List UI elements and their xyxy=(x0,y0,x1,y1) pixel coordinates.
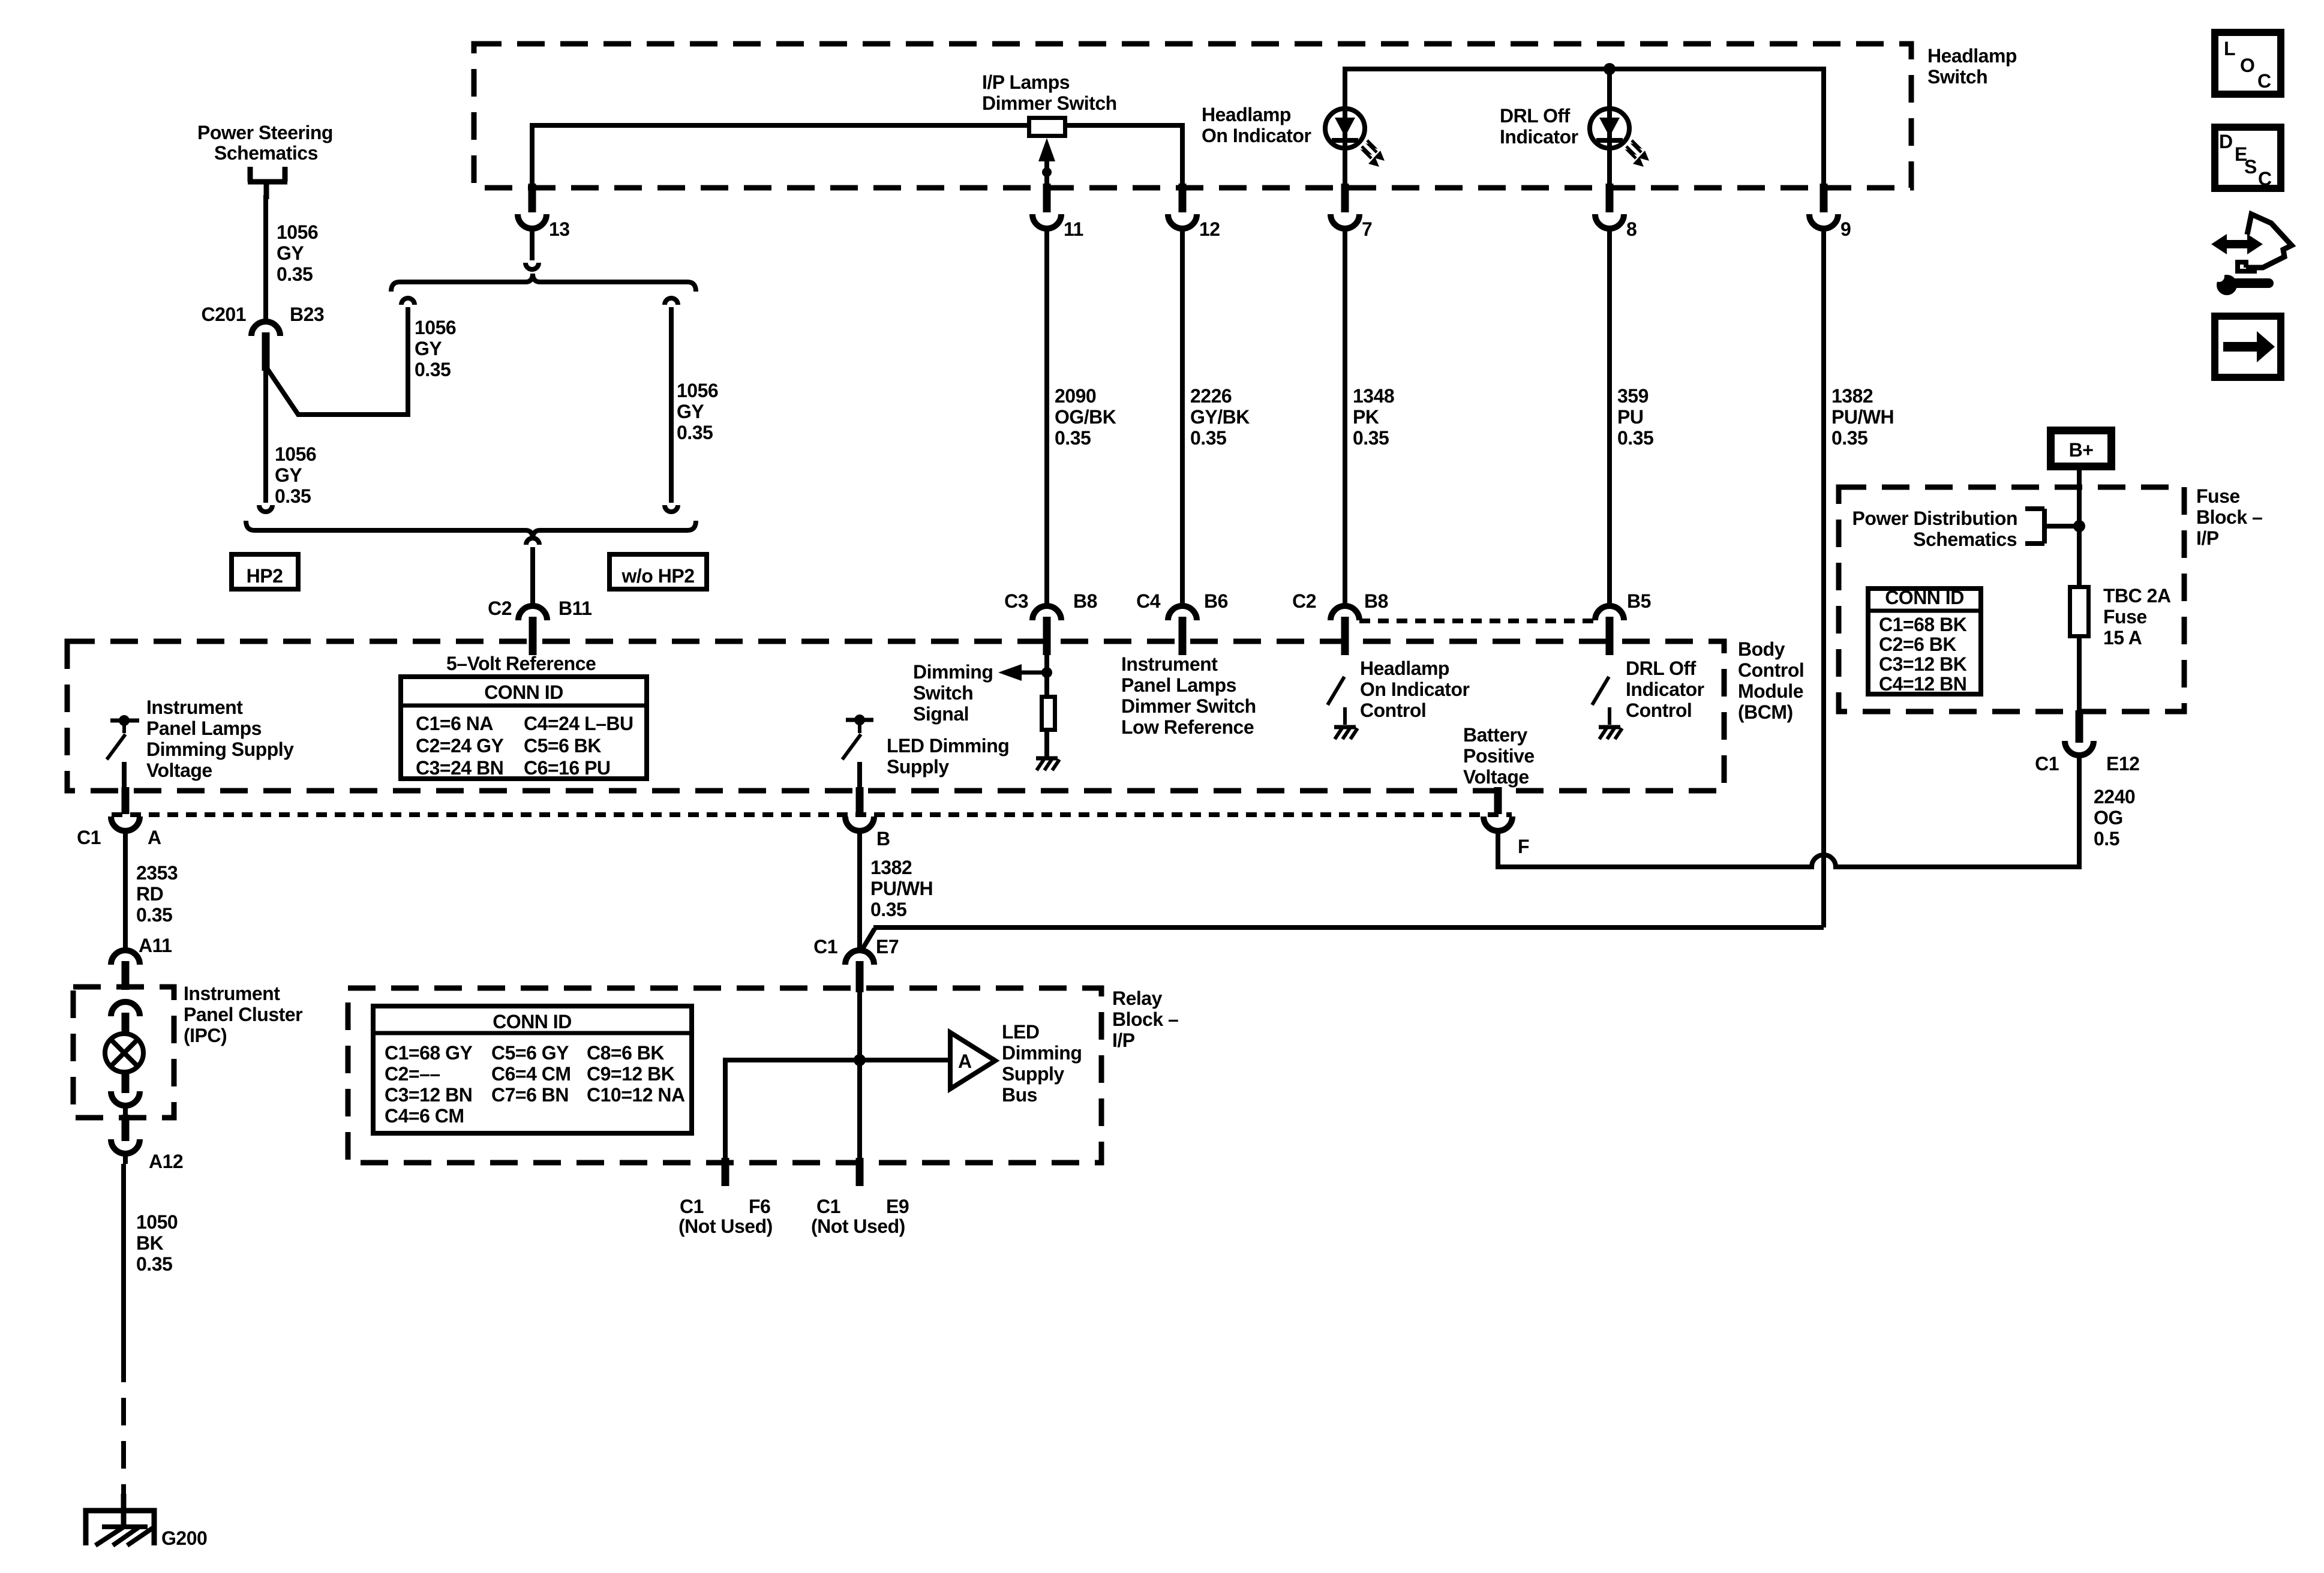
pin 11 of headlamp switch xyxy=(1043,184,1051,212)
body control module dashed enclosure xyxy=(67,641,1724,791)
fuse block dashed enclosure xyxy=(1839,487,2184,712)
svg-text:GY: GY xyxy=(275,464,302,486)
svg-text:Control: Control xyxy=(1738,659,1804,681)
svg-text:PU: PU xyxy=(1617,406,1643,428)
svg-text:G200: G200 xyxy=(161,1527,207,1549)
svg-text:S: S xyxy=(2244,156,2257,178)
switch headlamp on indicator control xyxy=(1328,677,1344,705)
icon vehicle service (arrow, silhouette, wrench) xyxy=(2223,240,2250,248)
svg-text:B8: B8 xyxy=(1073,590,1097,612)
svg-text:Supply: Supply xyxy=(887,756,949,778)
svg-text:Headlamp: Headlamp xyxy=(1360,658,1449,679)
svg-text:PU/WH: PU/WH xyxy=(1831,406,1894,428)
svg-text:15 A: 15 A xyxy=(2103,627,2142,649)
svg-text:Body: Body xyxy=(1738,638,1785,660)
svg-text:C5=6 BK: C5=6 BK xyxy=(524,735,601,757)
svg-text:Dimmer Switch: Dimmer Switch xyxy=(982,92,1117,114)
svg-text:C1: C1 xyxy=(816,1196,840,1217)
svg-text:C1=6 NA: C1=6 NA xyxy=(416,713,493,734)
svg-text:B8: B8 xyxy=(1364,590,1388,612)
svg-text:0.35: 0.35 xyxy=(677,422,713,443)
svg-text:B11: B11 xyxy=(559,598,591,619)
svg-text:C5=6 GY: C5=6 GY xyxy=(491,1042,569,1064)
light emission arrows (DRL LED) xyxy=(1632,140,1641,152)
splice underbrace (options join at C2/B11) xyxy=(246,521,696,539)
connector pin B5 (DRL off indicator control) xyxy=(1595,606,1624,620)
wire 1348 PK 0.35 (headlamp on indicator) xyxy=(1343,240,1347,607)
svg-text:Fuse: Fuse xyxy=(2103,606,2147,628)
svg-text:Indicator: Indicator xyxy=(1500,126,1578,148)
junction dot at DRL LED xyxy=(1604,63,1616,75)
svg-text:Schematics: Schematics xyxy=(1913,529,2017,550)
connector pin A12 xyxy=(122,1115,130,1141)
svg-text:Instrument: Instrument xyxy=(1121,653,1218,675)
wire 1056 GY 0.35 (straight HP2 branch) xyxy=(263,371,268,503)
svg-text:GY/BK: GY/BK xyxy=(1190,406,1250,428)
svg-text:Fuse: Fuse xyxy=(2196,485,2240,507)
svg-text:B: B xyxy=(876,828,890,849)
pin C1 F6 (not used) xyxy=(722,1158,729,1186)
svg-text:F: F xyxy=(1518,836,1529,857)
svg-text:Block –: Block – xyxy=(2196,506,2262,528)
svg-text:Switch: Switch xyxy=(913,682,973,704)
svg-text:C4=6 CM: C4=6 CM xyxy=(385,1105,464,1127)
svg-text:C2=––: C2=–– xyxy=(385,1063,440,1085)
svg-text:B23: B23 xyxy=(290,304,324,325)
ground G200 xyxy=(121,1494,127,1529)
svg-text:OG/BK: OG/BK xyxy=(1055,406,1116,428)
switch DRL off indicator control xyxy=(1592,677,1609,705)
svg-text:BK: BK xyxy=(136,1232,164,1254)
wire from pin 13 up into switch box xyxy=(530,125,535,188)
svg-text:C3=12 BK: C3=12 BK xyxy=(1879,653,1967,675)
svg-text:E9: E9 xyxy=(886,1196,909,1217)
pin 9 of headlamp switch xyxy=(1820,184,1828,212)
svg-text:0.35: 0.35 xyxy=(1617,427,1653,449)
svg-text:C: C xyxy=(2258,168,2272,190)
svg-text:B6: B6 xyxy=(1204,590,1228,612)
svg-text:2353: 2353 xyxy=(136,862,178,884)
switch LED dimming supply xyxy=(846,718,873,722)
svg-text:11: 11 xyxy=(1064,218,1083,240)
svg-text:Low Reference: Low Reference xyxy=(1121,716,1254,738)
svg-text:0.5: 0.5 xyxy=(2094,828,2119,849)
svg-text:DRL Off: DRL Off xyxy=(1626,658,1697,679)
dimmer wiper arrow xyxy=(1044,151,1049,188)
wire 2226 GY/BK 0.35 (dimmer low reference) xyxy=(1180,240,1185,607)
icon box forward arrow xyxy=(2215,316,2281,377)
svg-text:A: A xyxy=(958,1050,972,1072)
svg-text:Headlamp: Headlamp xyxy=(1202,104,1291,125)
connector C2 pin B11 (BCM 5-volt reference) xyxy=(518,606,547,620)
svg-text:C4=12 BN: C4=12 BN xyxy=(1879,673,1966,695)
svg-text:CONN ID: CONN ID xyxy=(484,682,563,703)
wire E7 to LED dimming supply bus xyxy=(857,992,862,1160)
svg-text:2090: 2090 xyxy=(1055,385,1096,407)
svg-text:1056: 1056 xyxy=(415,317,456,338)
svg-text:1382: 1382 xyxy=(1831,385,1873,407)
svg-text:Panel Lamps: Panel Lamps xyxy=(146,718,262,739)
svg-text:C7=6 BN: C7=6 BN xyxy=(491,1084,569,1106)
svg-text:C201: C201 xyxy=(202,304,247,325)
svg-text:GY: GY xyxy=(277,242,304,264)
svg-text:A: A xyxy=(148,827,161,848)
svg-text:C10=12 NA: C10=12 NA xyxy=(587,1084,685,1106)
svg-text:O: O xyxy=(2240,55,2254,76)
battery feed terminal B+ xyxy=(2051,431,2112,467)
connector C1 pin E12 xyxy=(2076,710,2083,743)
svg-text:Bus: Bus xyxy=(1002,1084,1037,1106)
wire 1050 BK 0.35 xyxy=(121,1164,126,1355)
svg-text:359: 359 xyxy=(1617,385,1649,407)
wire 1056 GY 0.35 (from power steering) xyxy=(264,182,269,199)
ground (BCM internal, headlamp on) xyxy=(1334,725,1356,730)
svg-text:Switch: Switch xyxy=(1927,66,1987,88)
svg-text:Block –: Block – xyxy=(1112,1008,1178,1030)
wire 2090 OG/BK 0.35 (dimmer signal) xyxy=(1044,240,1049,607)
svg-text:Control: Control xyxy=(1360,700,1426,721)
fuse TBC 2A 15 A xyxy=(2077,585,2082,638)
svg-text:C3: C3 xyxy=(1004,590,1028,612)
svg-text:C4=24 L–BU: C4=24 L–BU xyxy=(524,713,633,734)
option tag w/o HP2 xyxy=(609,554,707,589)
svg-text:Instrument: Instrument xyxy=(146,697,243,718)
svg-text:C1: C1 xyxy=(2035,753,2059,775)
svg-text:GY: GY xyxy=(415,338,442,359)
svg-text:C1: C1 xyxy=(680,1196,704,1217)
lamp instrument panel illumination xyxy=(105,1034,143,1072)
svg-text:TBC 2A: TBC 2A xyxy=(2103,585,2171,607)
svg-text:C2: C2 xyxy=(488,598,512,619)
svg-text:1382: 1382 xyxy=(870,857,912,878)
svg-text:w/o HP2: w/o HP2 xyxy=(621,565,695,587)
svg-text:1056: 1056 xyxy=(275,443,316,465)
svg-text:PK: PK xyxy=(1353,406,1379,428)
branch curl xyxy=(401,298,415,305)
connector C4 pin B6 (dimmer low reference into BCM) xyxy=(1168,606,1197,620)
wire 1382 PU/WH 0.35 (battery feed from pin 9) xyxy=(1821,240,1826,927)
ground (BCM internal, DRL off) xyxy=(1599,725,1620,730)
resistor (dimming signal pull-down) xyxy=(1042,697,1055,730)
relay block CONN ID table xyxy=(373,1006,692,1133)
svg-text:Dimming: Dimming xyxy=(1002,1042,1082,1064)
svg-text:0.35: 0.35 xyxy=(415,359,451,380)
svg-text:C1=68 BK: C1=68 BK xyxy=(1879,614,1967,635)
svg-text:C3=24 BN: C3=24 BN xyxy=(416,757,503,779)
svg-text:Panel Cluster: Panel Cluster xyxy=(184,1004,302,1025)
svg-text:Headlamp: Headlamp xyxy=(1927,45,2017,67)
IPC lamp socket top xyxy=(111,1002,140,1016)
relay block dashed enclosure xyxy=(348,988,1101,1163)
svg-text:5–Volt Reference: 5–Volt Reference xyxy=(446,653,596,674)
svg-text:1056: 1056 xyxy=(677,380,718,401)
svg-text:C1=68 GY: C1=68 GY xyxy=(385,1042,472,1064)
svg-text:L: L xyxy=(2224,38,2235,59)
svg-text:C6=4 CM: C6=4 CM xyxy=(491,1063,571,1085)
wire B+ to fuse xyxy=(2077,467,2082,587)
svg-text:(BCM): (BCM) xyxy=(1738,701,1793,723)
wire branch to F6 (not used) xyxy=(723,1058,728,1160)
wire battery positive F to E12 with hop over pin 9 wire xyxy=(1498,842,2079,867)
connector C1 pin B xyxy=(856,787,864,814)
svg-text:Control: Control xyxy=(1626,700,1692,721)
svg-text:C1: C1 xyxy=(813,936,837,957)
icon box DESC xyxy=(2215,127,2281,188)
svg-text:12: 12 xyxy=(1199,218,1220,240)
svg-text:E12: E12 xyxy=(2106,753,2139,775)
svg-text:A12: A12 xyxy=(149,1151,183,1172)
svg-text:C1: C1 xyxy=(77,827,101,848)
svg-text:2226: 2226 xyxy=(1190,385,1232,407)
LED DRL Off Indicator xyxy=(1607,69,1612,188)
svg-text:Dimmer Switch: Dimmer Switch xyxy=(1121,695,1256,717)
wire 1050 BK continuation (dashed) xyxy=(121,1355,126,1494)
svg-text:RD: RD xyxy=(136,883,163,905)
wire 2240 OG 0.5 xyxy=(2077,775,2082,869)
svg-text:Indicator: Indicator xyxy=(1626,679,1704,700)
svg-text:PU/WH: PU/WH xyxy=(870,878,933,899)
svg-text:I/P: I/P xyxy=(1112,1029,1135,1051)
svg-text:Dimming: Dimming xyxy=(913,661,993,683)
fuse block CONN ID table xyxy=(1868,589,1981,694)
svg-text:I/P Lamps: I/P Lamps xyxy=(982,71,1070,93)
svg-text:On Indicator: On Indicator xyxy=(1360,679,1470,700)
potentiometer I/P Lamps Dimmer Switch xyxy=(1029,118,1065,136)
dotted connector tie line B8-B5 xyxy=(1359,619,1595,623)
svg-text:Relay: Relay xyxy=(1112,987,1163,1009)
svg-text:C4: C4 xyxy=(1136,590,1161,612)
svg-text:Module: Module xyxy=(1738,680,1803,702)
junction dot on wiper xyxy=(1042,167,1052,177)
svg-text:C2=6 BK: C2=6 BK xyxy=(1879,634,1956,655)
svg-text:Dimming Supply: Dimming Supply xyxy=(146,739,294,760)
svg-text:DRL Off: DRL Off xyxy=(1500,105,1571,127)
svg-text:CONN ID: CONN ID xyxy=(1885,587,1964,608)
svg-text:(Not Used): (Not Used) xyxy=(811,1215,905,1237)
wire 1382 PU/WH 0.35 (from pin B) xyxy=(857,842,862,951)
svg-text:B5: B5 xyxy=(1627,590,1651,612)
ground (BCM internal, dimming signal) xyxy=(1036,757,1058,761)
svg-text:Voltage: Voltage xyxy=(146,760,212,781)
svg-text:D: D xyxy=(2219,131,2233,152)
dimming switch signal node with arrow xyxy=(1044,655,1049,696)
svg-text:0.35: 0.35 xyxy=(1831,427,1867,449)
svg-text:GY: GY xyxy=(677,401,704,422)
junction dot power distribution tap xyxy=(2073,520,2085,532)
svg-text:E7: E7 xyxy=(876,936,899,957)
svg-text:0.35: 0.35 xyxy=(136,904,172,926)
svg-text:C: C xyxy=(2257,70,2271,92)
svg-text:(Not Used): (Not Used) xyxy=(678,1215,773,1237)
buffer A (LED dimming supply bus) xyxy=(950,1032,995,1089)
svg-text:I/P: I/P xyxy=(2196,527,2219,549)
IPC lamp socket bottom xyxy=(122,1071,130,1093)
svg-text:0.35: 0.35 xyxy=(277,263,313,285)
wire corner down to pin 12 xyxy=(1180,123,1185,188)
svg-text:CONN ID: CONN ID xyxy=(493,1011,572,1032)
BCM CONN ID table xyxy=(401,677,647,779)
svg-text:0.35: 0.35 xyxy=(870,899,906,920)
svg-text:0.35: 0.35 xyxy=(275,485,311,507)
LED bus wire (top) xyxy=(1345,69,1824,188)
svg-text:A11: A11 xyxy=(139,935,172,956)
svg-text:8: 8 xyxy=(1626,218,1637,240)
wire 13 stub above splice brace xyxy=(530,240,535,260)
svg-text:LED: LED xyxy=(1002,1021,1040,1043)
wire from pin 9 to relay block (horizontal) xyxy=(873,925,1824,930)
IP harness connector dotted line xyxy=(112,812,1512,817)
option tag HP2 xyxy=(232,554,298,589)
svg-text:C3=12 BN: C3=12 BN xyxy=(385,1084,472,1106)
connector C201 pin B23 xyxy=(251,322,280,336)
svg-text:0.35: 0.35 xyxy=(1190,427,1226,449)
wire from underbrace to C2/B11 xyxy=(526,538,539,545)
svg-text:B+: B+ xyxy=(2069,439,2094,461)
svg-text:Power Distribution: Power Distribution xyxy=(1852,508,2017,529)
svg-text:On Indicator: On Indicator xyxy=(1202,125,1311,146)
wire 1056 GY 0.35 (w/o HP2 branch) xyxy=(665,298,678,305)
svg-text:Voltage: Voltage xyxy=(1463,766,1529,788)
wire dimmer feed (horizontal inside switch) xyxy=(530,123,1182,128)
svg-text:(IPC): (IPC) xyxy=(184,1025,227,1046)
connector C1 pin A xyxy=(122,787,130,814)
connector C1 pin F (battery positive) xyxy=(1494,787,1502,814)
connector C3 pin B8 (dimmer switch signal into BCM) xyxy=(1032,606,1061,620)
wire resistor to ground xyxy=(1044,732,1049,757)
svg-text:Signal: Signal xyxy=(913,703,969,725)
svg-text:C2: C2 xyxy=(1292,590,1316,612)
pin 13 of headlamp switch xyxy=(529,184,536,212)
light emission arrows (headlamp LED) xyxy=(1367,140,1377,152)
svg-text:Power Steering: Power Steering xyxy=(197,122,333,143)
pin C1 E9 (not used) xyxy=(856,1158,864,1186)
svg-text:C9=12 BK: C9=12 BK xyxy=(587,1063,675,1085)
svg-text:1050: 1050 xyxy=(136,1211,178,1233)
svg-text:C2=24 GY: C2=24 GY xyxy=(416,735,503,757)
svg-text:C8=6 BK: C8=6 BK xyxy=(587,1042,664,1064)
svg-text:0.35: 0.35 xyxy=(1353,427,1389,449)
svg-text:OG: OG xyxy=(2094,807,2123,828)
instrument panel cluster dashed enclosure xyxy=(73,987,174,1118)
connector C2 pin B8 (headlamp on indicator control) xyxy=(1331,606,1359,620)
svg-text:1348: 1348 xyxy=(1353,385,1394,407)
svg-text:C6=16 PU: C6=16 PU xyxy=(524,757,611,779)
switch instrument panel lamps dimming supply voltage xyxy=(110,719,139,723)
svg-text:0.35: 0.35 xyxy=(1055,427,1091,449)
svg-text:HP2: HP2 xyxy=(247,565,283,587)
LED Headlamp On Indicator xyxy=(1343,69,1347,188)
svg-text:Instrument: Instrument xyxy=(184,983,280,1004)
svg-text:Battery: Battery xyxy=(1463,724,1527,746)
wire 2353 RD 0.35 xyxy=(123,842,128,951)
pin 7 of headlamp switch xyxy=(1341,184,1349,212)
pin 8 of headlamp switch xyxy=(1606,184,1614,212)
svg-text:Panel Lamps: Panel Lamps xyxy=(1121,674,1236,696)
svg-text:9: 9 xyxy=(1840,218,1851,240)
icon box LOC xyxy=(2215,32,2281,94)
svg-text:13: 13 xyxy=(549,218,570,240)
svg-text:0.35: 0.35 xyxy=(136,1253,172,1275)
svg-text:Supply: Supply xyxy=(1002,1063,1064,1085)
svg-text:Positive: Positive xyxy=(1463,745,1535,767)
svg-text:2240: 2240 xyxy=(2094,786,2135,807)
svg-text:LED Dimming: LED Dimming xyxy=(887,735,1009,757)
headlamp switch dashed enclosure xyxy=(474,44,1911,188)
wire branch from C201 to splice option (diagonal) xyxy=(267,307,408,415)
svg-text:1056: 1056 xyxy=(277,221,318,243)
svg-text:Schematics: Schematics xyxy=(214,142,318,164)
wire 359 PU 0.35 (DRL off indicator) xyxy=(1607,240,1612,607)
wire fuse to E12 xyxy=(2077,636,2082,714)
pin 12 of headlamp switch xyxy=(1179,184,1187,212)
svg-text:F6: F6 xyxy=(749,1196,770,1217)
splice overbrace (options join at pin 13) xyxy=(391,274,696,292)
svg-text:7: 7 xyxy=(1362,218,1372,240)
